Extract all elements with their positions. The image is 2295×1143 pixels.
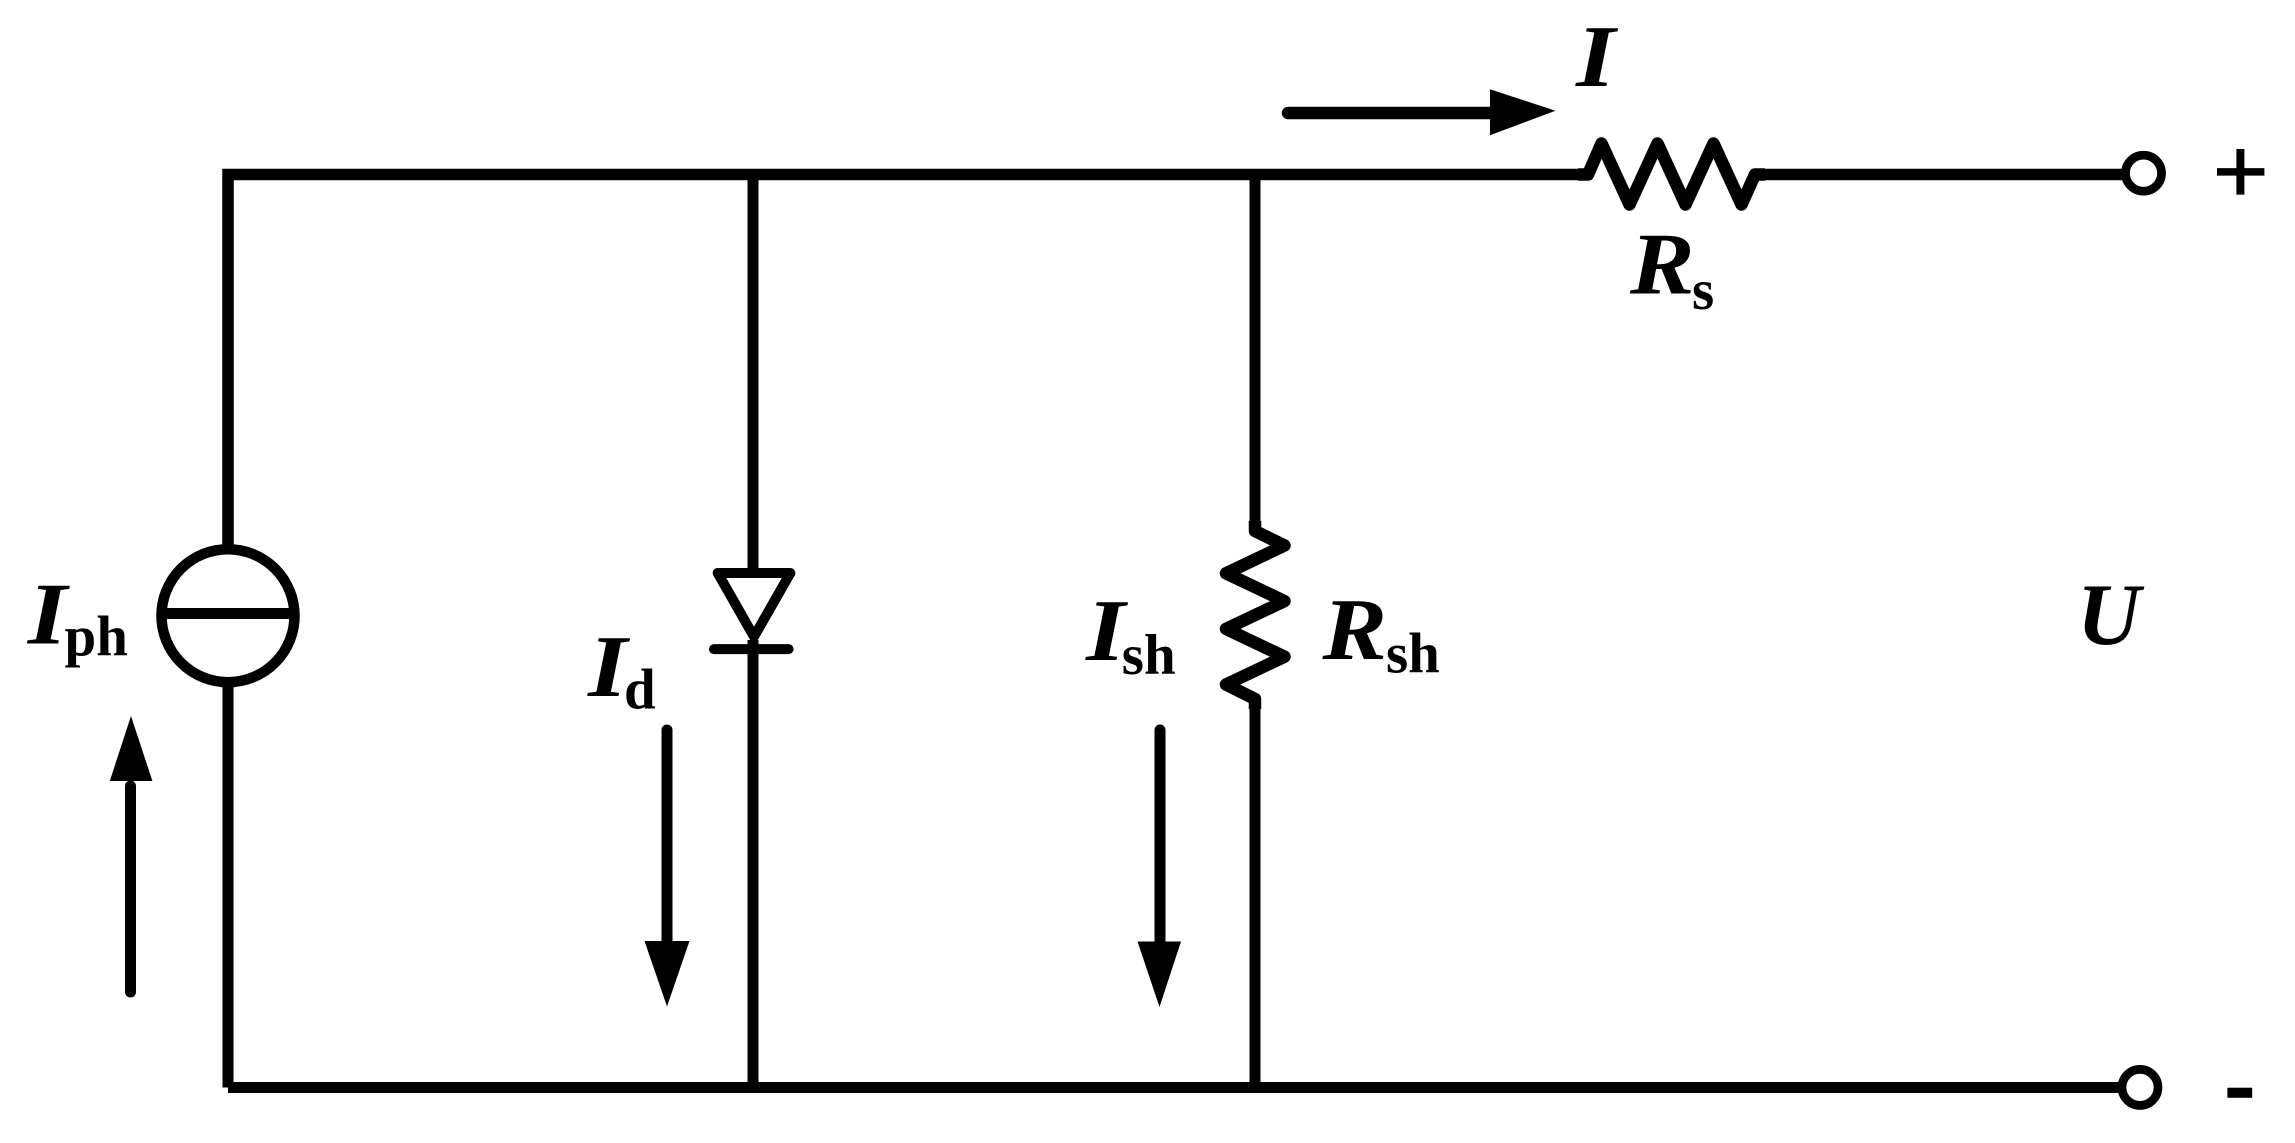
label I [1575, 9, 1619, 106]
diode D [714, 573, 790, 649]
svg-text:I: I [1575, 9, 1619, 106]
label Id [587, 619, 631, 716]
wire left lower segment [223, 685, 234, 1088]
wire top rail right segment [1755, 169, 2122, 181]
wire shunt branch lower [1250, 697, 1261, 1088]
label Iph [27, 566, 71, 663]
plus sign [2217, 149, 2264, 195]
wire bottom rail [228, 1082, 2119, 1093]
arrow current I [1288, 89, 1556, 135]
label Ish [1085, 583, 1129, 680]
terminal positive [2126, 155, 2162, 191]
svg-text:R: R [1629, 216, 1695, 313]
arrow current Ish [1138, 730, 1182, 1007]
svg-text:U: U [2077, 567, 2145, 664]
svg-text:s: s [1692, 259, 1714, 322]
wire diode branch upper [748, 169, 759, 572]
wire diode branch lower [748, 640, 759, 1088]
svg-text:d: d [624, 659, 656, 722]
wire shunt branch upper [1250, 169, 1261, 533]
wire top rail left segment with left drop [228, 175, 1588, 547]
label Rs [1629, 216, 1695, 313]
svg-text:sh: sh [1122, 624, 1176, 687]
svg-text:R: R [1321, 582, 1387, 679]
terminal negative [2122, 1069, 2158, 1105]
arrow current Iph [110, 716, 153, 992]
svg-text:sh: sh [1386, 622, 1440, 685]
current source Iph [162, 549, 295, 682]
arrow current Id [645, 730, 690, 1007]
resistor Rs [1578, 144, 1765, 205]
label Rsh [1321, 582, 1387, 679]
svg-text:ph: ph [65, 606, 128, 669]
minus sign [2227, 1088, 2252, 1098]
resistor Rsh [1226, 521, 1285, 709]
